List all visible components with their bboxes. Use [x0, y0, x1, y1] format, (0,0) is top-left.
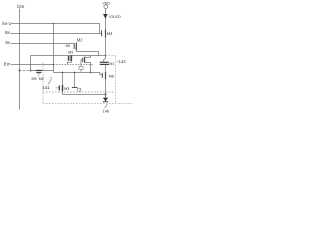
svg-text:Em: Em — [4, 61, 11, 66]
transistor M2 drain wire — [76, 50, 98, 55]
transistor M3b top lead — [85, 56, 91, 58]
dashed boundary extension — [115, 102, 133, 104]
capacitor C1 plate — [72, 87, 78, 89]
svg-text:M4: M4 — [107, 31, 113, 36]
transistor M3 channel — [62, 85, 64, 91]
transistor M3 gate bar — [68, 56, 70, 61]
dashed box 143 — [42, 63, 44, 104]
transistor M6 channel — [105, 72, 107, 79]
transistor M3b channel — [84, 57, 86, 63]
OLED diode — [103, 98, 108, 102]
inner dashed separator — [43, 91, 115, 93]
gate bus — [54, 73, 103, 75]
pixel data wire from Dm — [20, 70, 31, 72]
svg-text:M3: M3 — [64, 87, 69, 91]
svg-text:M1: M1 — [109, 62, 114, 66]
label 146 leader — [105, 104, 108, 108]
transistor M3 channel — [70, 55, 72, 61]
wire — [31, 70, 54, 72]
emission line En — [11, 33, 102, 35]
transistor M2 channel — [75, 43, 77, 51]
control line Em — [11, 64, 54, 66]
transistor M5 gate stub — [38, 73, 40, 77]
dashed gate option wire — [54, 64, 94, 66]
bus drop to M3 — [62, 73, 64, 85]
transistor M3b gate bar — [82, 58, 84, 63]
node box stem — [80, 69, 82, 72]
transistor M6 gate bar — [101, 73, 103, 78]
dashed box right edge — [114, 56, 116, 104]
node on Dm — [19, 70, 21, 72]
svg-text:En: En — [5, 30, 11, 35]
wire node to ELVDD — [31, 56, 106, 71]
svg-text:M5: M5 — [32, 77, 37, 81]
transistor M3 drain lead — [67, 61, 71, 65]
ELVDD line lower — [105, 65, 107, 95]
node at ELVDD — [105, 55, 107, 57]
node Em junction — [53, 64, 55, 66]
node Sn-1 junction — [53, 23, 55, 25]
svg-text:Sn-1: Sn-1 — [2, 21, 12, 26]
transistor M3b bottom lead — [85, 62, 91, 72]
ELVDD supply circle — [104, 5, 108, 9]
transistor M3b gate lead — [81, 60, 83, 67]
OLED cathode bar — [103, 101, 108, 103]
data line Dm — [19, 9, 21, 110]
node box — [79, 66, 83, 69]
node N1 — [30, 70, 32, 72]
dashed box bottom edge — [43, 102, 115, 104]
node bus 2 — [74, 72, 76, 74]
scan line Sn — [11, 43, 74, 45]
transistor M1 bottom bar — [100, 63, 109, 65]
svg-text:146: 146 — [103, 108, 110, 113]
svg-text:M2: M2 — [77, 38, 83, 43]
svg-text:Dm: Dm — [17, 4, 24, 9]
bus drop to capacitor C1 — [74, 73, 76, 88]
OLED anode stem — [105, 95, 107, 98]
current arrow IOLED — [103, 14, 108, 19]
ELVDD line upper — [105, 9, 107, 59]
transistor M1 top bar — [100, 61, 109, 63]
svg-text:IOLED: IOLED — [109, 15, 121, 19]
node bus 3 — [90, 72, 92, 74]
wire Sn-1 to pixel — [53, 24, 55, 73]
scan line Sn-1 — [11, 24, 100, 34]
transistor M4 gate bar — [101, 30, 103, 36]
node OLED anode — [104, 93, 106, 95]
transistor M4 channel — [105, 29, 107, 37]
svg-text:M5: M5 — [66, 44, 71, 48]
transistor M3 gate lead — [55, 87, 59, 89]
transistor M3 gate bar — [58, 85, 60, 90]
svg-text:~143: ~143 — [116, 59, 126, 64]
transistor M5 gate bar — [36, 72, 41, 74]
dashed box top partial edge — [106, 55, 116, 57]
transistor M5 channel — [36, 70, 42, 72]
svg-text:M2: M2 — [39, 77, 44, 81]
small box element — [78, 88, 81, 91]
svg-text:141: 141 — [42, 85, 50, 90]
node bus 1 — [62, 72, 64, 74]
svg-text:Sn: Sn — [5, 40, 11, 45]
transistor M3 bottom lead — [62, 91, 64, 95]
svg-text:M3: M3 — [68, 51, 73, 55]
bottom wire — [63, 94, 106, 96]
label 141 leader — [48, 77, 51, 85]
transistor M1 jog — [104, 58, 106, 62]
svg-text:M6: M6 — [109, 75, 114, 79]
transistor M2 gate bar — [73, 44, 75, 50]
